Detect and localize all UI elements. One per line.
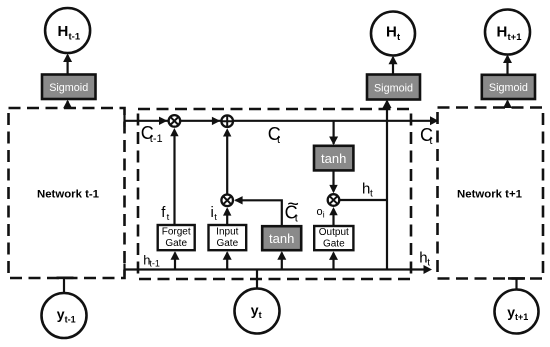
wire Sigmoid (left) to H_t-1 [63, 54, 72, 75]
svg-text:Sigmoid: Sigmoid [489, 82, 528, 94]
label h_t (inner) [362, 181, 373, 200]
wire box top to Sigmoid (right) [503, 100, 512, 109]
label h_t-1 [143, 252, 160, 268]
dashed box Network t-1 [9, 108, 125, 278]
svg-text:H: H [386, 24, 397, 41]
svg-text:t+1: t+1 [515, 312, 528, 322]
node H_t [371, 12, 415, 56]
wire C line (C_t-1 to C_t) [125, 115, 439, 127]
wire y_t-1 to box bottom [57, 278, 74, 293]
svg-text:t-1: t-1 [65, 314, 76, 324]
svg-text:y: y [57, 306, 65, 322]
svg-text:H: H [497, 24, 508, 41]
wire tanh (lower) to multiply X2 [234, 196, 282, 226]
Input Gate block [209, 225, 247, 250]
dashed box Network t+1 [438, 108, 544, 279]
svg-text:t-1: t-1 [69, 31, 81, 42]
svg-text:t+1: t+1 [508, 32, 523, 43]
svg-text:i: i [323, 209, 325, 219]
wire riser to Input Gate [223, 251, 232, 269]
wire riser to tanh (lower) [277, 251, 286, 269]
svg-text:t-1: t-1 [150, 133, 163, 145]
svg-text:Network t-1: Network t-1 [37, 188, 100, 200]
wire tanh (upper) to multiply X3 [329, 170, 337, 193]
wire h line (h_t-1 to h_t) [125, 264, 433, 276]
svg-text:Forget: Forget [162, 227, 191, 238]
multiply op X3 (output) [328, 194, 340, 206]
sigmoid block (center) [367, 75, 420, 100]
node H_t+1 [485, 10, 530, 55]
svg-text:y: y [507, 304, 515, 320]
svg-text:t-1: t-1 [149, 258, 160, 268]
svg-text:Gate: Gate [216, 238, 238, 249]
tanh block (upper) [314, 146, 353, 171]
wire h_t junction up to Sigmoid (center) [383, 100, 392, 201]
Output Gate block [314, 226, 353, 250]
label C_t (right) [420, 125, 433, 147]
svg-text:t: t [277, 134, 280, 146]
svg-text:Sigmoid: Sigmoid [49, 82, 88, 94]
node y_t-1 [42, 293, 87, 338]
svg-text:tanh: tanh [321, 151, 346, 166]
wire riser to Forget Gate [171, 251, 180, 269]
wire Forget Gate to multiply X1 [170, 128, 178, 225]
wire riser to Output Gate [329, 251, 338, 269]
svg-text:t: t [167, 212, 170, 223]
wire Sigmoid (right) to H_t+1 [503, 55, 512, 75]
tanh block (lower) [262, 226, 301, 250]
svg-text:Gate: Gate [165, 238, 187, 249]
node y_t [235, 289, 280, 334]
wire multiply X2 to add [223, 128, 231, 194]
wire box top to Sigmoid (left) [63, 100, 72, 109]
wire C line to tanh (upper) [329, 121, 338, 145]
add op (cell update) [221, 115, 233, 127]
svg-text:Sigmoid: Sigmoid [374, 82, 413, 94]
svg-text:H: H [58, 23, 69, 40]
svg-text:Gate: Gate [323, 239, 345, 250]
svg-text:tanh: tanh [269, 231, 294, 246]
multiply op X2 (input) [221, 195, 233, 207]
svg-text:Input: Input [216, 227, 238, 238]
svg-text:t: t [429, 135, 432, 147]
wire Input Gate to multiply X2 [223, 207, 231, 225]
label f_t [161, 204, 169, 223]
svg-text:t: t [295, 213, 298, 225]
svg-text:t: t [370, 189, 373, 200]
Forget Gate block [158, 225, 195, 250]
dashed box LSTM cell (center) [138, 109, 411, 279]
wire Output Gate to multiply X3 [329, 207, 337, 226]
label h_t (right) [419, 250, 430, 269]
svg-text:t: t [214, 212, 217, 223]
sigmoid block (left) [42, 75, 96, 100]
wire y_t+1 to box bottom [508, 278, 525, 289]
label i_t [211, 204, 218, 223]
label o_i [317, 206, 325, 219]
svg-text:y: y [251, 302, 259, 318]
sigmoid block (right) [482, 75, 535, 99]
wire y_t to h line [256, 270, 258, 289]
label C_t (center) [268, 124, 281, 146]
node y_t+1 [495, 290, 539, 334]
svg-text:o: o [317, 206, 323, 218]
label C_t-1 [141, 123, 163, 145]
svg-text:t: t [259, 310, 262, 320]
wire multiply X3 to h_t junction [340, 199, 388, 201]
wire Sigmoid (center) to H_t [389, 56, 398, 75]
wire h_t junction down to h line [386, 200, 388, 270]
svg-text:Network t+1: Network t+1 [457, 188, 523, 200]
label C~_t (candidate) [285, 193, 299, 224]
svg-text:t: t [427, 258, 430, 269]
node H_t-1 [45, 8, 90, 53]
svg-text:Output: Output [319, 227, 349, 238]
multiply op X1 (forget) [169, 115, 181, 127]
